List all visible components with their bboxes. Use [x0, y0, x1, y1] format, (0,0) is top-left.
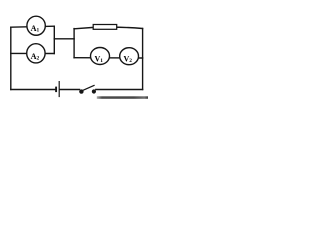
wire left edge [10, 27, 12, 89]
resistor R1 [93, 25, 117, 30]
wire switch to bottom right corner [96, 89, 143, 91]
wire ammeter junction vertical [53, 26, 55, 53]
wire bottom left to battery [11, 89, 55, 91]
wire A2 branch [11, 52, 55, 54]
battery B1 [56, 81, 59, 97]
svg-text:1: 1 [37, 28, 40, 34]
svg-text:1: 1 [100, 58, 103, 64]
wire voltmeter branch [74, 57, 143, 59]
wire junction to right loop [54, 38, 74, 40]
wire right loop left vertical [73, 29, 75, 58]
ammeter A1 [27, 16, 45, 35]
wire right edge [142, 29, 144, 90]
wire resistor branch [74, 27, 143, 29]
switch S1 [79, 85, 96, 94]
ammeter A2 [27, 44, 45, 63]
svg-text:2: 2 [129, 58, 132, 64]
wire A1 branch [11, 26, 55, 27]
voltmeter V2 [120, 48, 139, 65]
partial horizontal rule below circuit (cropped page element) [97, 96, 148, 99]
svg-text:2: 2 [36, 56, 39, 62]
voltmeter V1 [91, 48, 110, 65]
wire battery to switch [60, 89, 80, 91]
